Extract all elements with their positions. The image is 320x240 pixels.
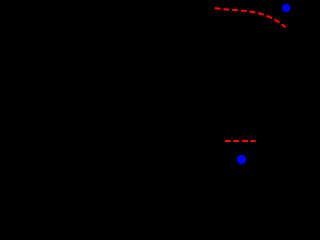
ball B1 (blue, top right at end of arc) — [282, 4, 290, 12]
trajectory arc (dashed red projectile path, top right) — [215, 8, 286, 27]
horizontal dashed path (red, lower right) — [225, 140, 256, 142]
ball B2 (blue, below dashed line) — [237, 155, 247, 165]
